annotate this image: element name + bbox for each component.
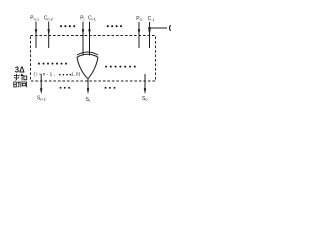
svg-text:(i=n-1,: (i=n-1, bbox=[34, 71, 57, 76]
svg-text:3Δ: 3Δ bbox=[15, 66, 25, 75]
svg-text:P0: P0 bbox=[136, 16, 141, 22]
svg-text:Ci-1: Ci-1 bbox=[88, 16, 96, 22]
svg-text:1,0): 1,0) bbox=[71, 71, 80, 76]
svg-text:S0: S0 bbox=[142, 96, 147, 102]
svg-text:Pn-1: Pn-1 bbox=[30, 16, 39, 22]
svg-text:C-1: C-1 bbox=[148, 16, 155, 22]
svg-text:Cn-2: Cn-2 bbox=[44, 16, 53, 22]
svg-text:Sn-1: Sn-1 bbox=[37, 95, 46, 101]
svg-text:Pi: Pi bbox=[80, 16, 84, 22]
svg-text:Si: Si bbox=[86, 97, 90, 103]
